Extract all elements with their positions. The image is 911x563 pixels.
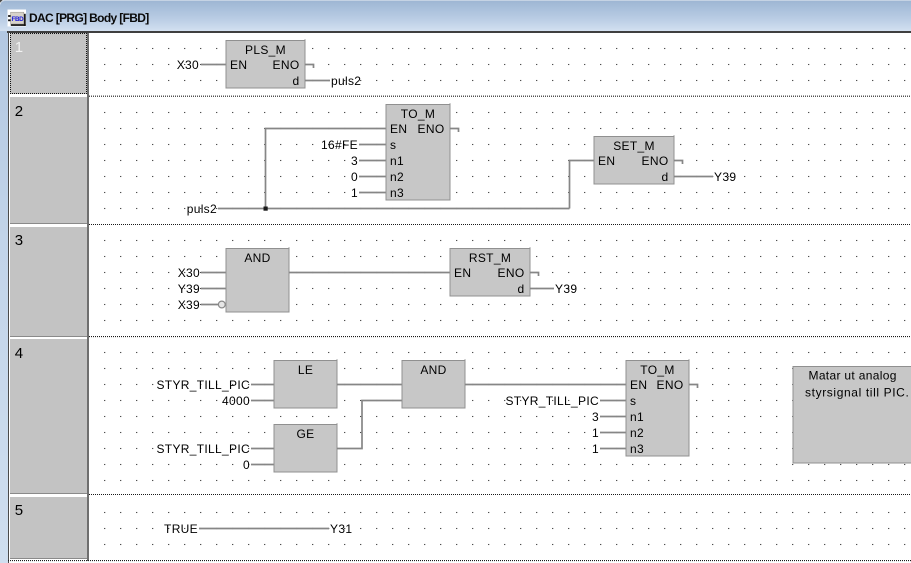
svg-text:d: d — [293, 74, 300, 88]
wire TRUE to Y31 — [199, 528, 329, 530]
svg-text:4000: 4000 — [222, 394, 250, 408]
svg-text:n2: n2 — [630, 426, 644, 440]
TO_M ENO open stub — [689, 385, 698, 389]
wire 3 to TO_M n1 — [359, 160, 386, 162]
network rail box 4 — [10, 339, 87, 494]
svg-text:s: s — [390, 138, 396, 152]
wire STYR_TILL_PIC to GE in1 — [251, 448, 274, 450]
AND gate U4 — [226, 249, 289, 313]
svg-text:TRUE: TRUE — [164, 522, 198, 536]
function block RST_M U5 — [450, 249, 530, 297]
network rail box 5 — [10, 497, 87, 560]
svg-text:n1: n1 — [390, 154, 404, 168]
svg-text:Y39: Y39 — [714, 170, 736, 184]
svg-text:STYR_TILL_PIC: STYR_TILL_PIC — [156, 378, 250, 392]
wire X39 to AND in3 — [201, 304, 218, 306]
svg-text:Y39: Y39 — [178, 282, 200, 296]
dark vertical line left of network rail — [8, 31, 9, 563]
wire riser puls2 to SET_M EN — [570, 161, 595, 209]
wire STYR_TILL_PIC to TO_M s — [600, 400, 626, 402]
FBD window icon — [8, 10, 27, 27]
svg-text:LE: LE — [298, 363, 313, 377]
svg-text:ENO: ENO — [657, 378, 684, 392]
window left frame strip — [0, 31, 8, 563]
svg-text:16#FE: 16#FE — [321, 138, 358, 152]
window title text — [29, 11, 149, 25]
svg-text:RST_M: RST_M — [469, 251, 511, 265]
network separator 3 — [89, 336, 911, 338]
wire 1 to TO_M n3 — [359, 192, 386, 194]
wire 4000 to LE in2 — [251, 400, 274, 402]
svg-text:s: s — [630, 394, 636, 408]
svg-text:AND: AND — [420, 363, 446, 377]
svg-text:1: 1 — [351, 186, 358, 200]
function block TO_M U9 — [626, 361, 689, 457]
svg-text:STYR_TILL_PIC: STYR_TILL_PIC — [505, 394, 599, 408]
svg-text:EN: EN — [630, 378, 647, 392]
wire AND out to TO_M EN — [465, 384, 626, 386]
svg-text:ENO: ENO — [498, 266, 525, 280]
svg-text:X39: X39 — [178, 298, 200, 312]
svg-text:ENO: ENO — [273, 58, 300, 72]
wire 0 to TO_M n2 — [359, 176, 386, 178]
svg-text:3: 3 — [592, 410, 599, 424]
wire 3 to TO_M n1 — [600, 416, 626, 418]
TO_M ENO open stub — [450, 129, 459, 133]
network separator 4 — [89, 494, 911, 496]
svg-text:d: d — [662, 170, 669, 184]
function block PLS_M U1 — [226, 41, 305, 89]
svg-text:EN: EN — [230, 58, 247, 72]
svg-text:1: 1 — [592, 426, 599, 440]
svg-text:Matar ut analog: Matar ut analog — [809, 369, 897, 383]
window corner artifact — [0, 0, 3, 3]
svg-text:SET_M: SET_M — [613, 139, 655, 153]
svg-text:STYR_TILL_PIC: STYR_TILL_PIC — [156, 442, 250, 456]
wire LE out to AND in1 — [337, 384, 402, 386]
svg-text:X30: X30 — [178, 266, 200, 280]
svg-text:EN: EN — [598, 154, 615, 168]
comparator LE U6 — [274, 361, 337, 409]
junction dot on puls2 wire — [264, 207, 268, 211]
svg-text:TO_M: TO_M — [640, 363, 674, 377]
AND gate U8 — [402, 361, 465, 409]
network separator 1 — [89, 95, 911, 97]
network rail box 3 — [10, 227, 87, 337]
svg-text:n3: n3 — [390, 186, 404, 200]
comparator GE U7 — [274, 425, 337, 473]
svg-text:GE: GE — [297, 427, 315, 441]
svg-text:n2: n2 — [390, 170, 404, 184]
svg-text:styrsignal till PIC.: styrsignal till PIC. — [805, 386, 909, 400]
wire 1 to TO_M n3 — [600, 448, 626, 450]
wire PLS_M d to puls2 — [305, 80, 330, 82]
svg-text:EN: EN — [454, 266, 471, 280]
function block TO_M U2 — [386, 105, 450, 201]
window title bar — [0, 0, 911, 31]
wire SET_M d to Y39 — [674, 176, 713, 178]
wire Y39 to AND in2 — [201, 288, 226, 290]
dark separator line under title bar — [7, 31, 911, 33]
svg-text:ENO: ENO — [642, 154, 669, 168]
wire 16#FE to TO_M s — [359, 144, 386, 146]
svg-text:PLS_M: PLS_M — [245, 43, 286, 57]
network rail box 2 — [10, 97, 87, 224]
wire 0 to GE in2 — [251, 464, 274, 466]
svg-text:d: d — [518, 282, 525, 296]
svg-text:3: 3 — [351, 154, 358, 168]
negation bubble on AND in3 — [218, 301, 225, 308]
svg-text:Y31: Y31 — [330, 522, 352, 536]
svg-text:0: 0 — [351, 170, 358, 184]
dark vertical line right of network rail — [87, 33, 89, 561]
svg-text:ENO: ENO — [418, 122, 445, 136]
svg-text:FBD: FBD — [12, 16, 25, 23]
svg-text:n1: n1 — [630, 410, 644, 424]
wire GE out to AND in2 — [337, 401, 402, 449]
svg-text:1: 1 — [592, 442, 599, 456]
wire riser puls2 to TO_M EN — [266, 129, 387, 209]
svg-text:n3: n3 — [630, 442, 644, 456]
wire X30 to PLS_M EN — [201, 64, 226, 66]
function block SET_M U3 — [594, 137, 674, 185]
svg-text:0: 0 — [243, 458, 250, 472]
svg-text:puls2: puls2 — [187, 202, 217, 216]
wire STYR_TILL_PIC to LE in1 — [251, 384, 274, 386]
network separator 2 — [89, 224, 911, 226]
wire RST_M d to Y39 — [530, 288, 554, 290]
svg-text:Y39: Y39 — [555, 282, 577, 296]
bottom network separator — [8, 560, 911, 562]
RST_M ENO open stub — [530, 273, 539, 277]
network rail box 1 — [10, 33, 87, 94]
grid dots — [104, 48, 905, 545]
svg-text:X30: X30 — [177, 58, 199, 72]
SET_M ENO open stub — [674, 161, 683, 165]
wire puls2 horizontal run — [218, 208, 570, 210]
wire AND out to RST_M EN — [289, 272, 450, 274]
wire X30 to AND in1 — [201, 272, 226, 274]
wire 1 to TO_M n2 — [600, 432, 626, 434]
svg-text:TO_M: TO_M — [401, 107, 435, 121]
svg-text:EN: EN — [390, 122, 407, 136]
svg-text:AND: AND — [244, 251, 270, 265]
svg-text:puls2: puls2 — [331, 74, 361, 88]
comment box — [793, 367, 911, 464]
PLS_M ENO open stub — [305, 65, 314, 69]
